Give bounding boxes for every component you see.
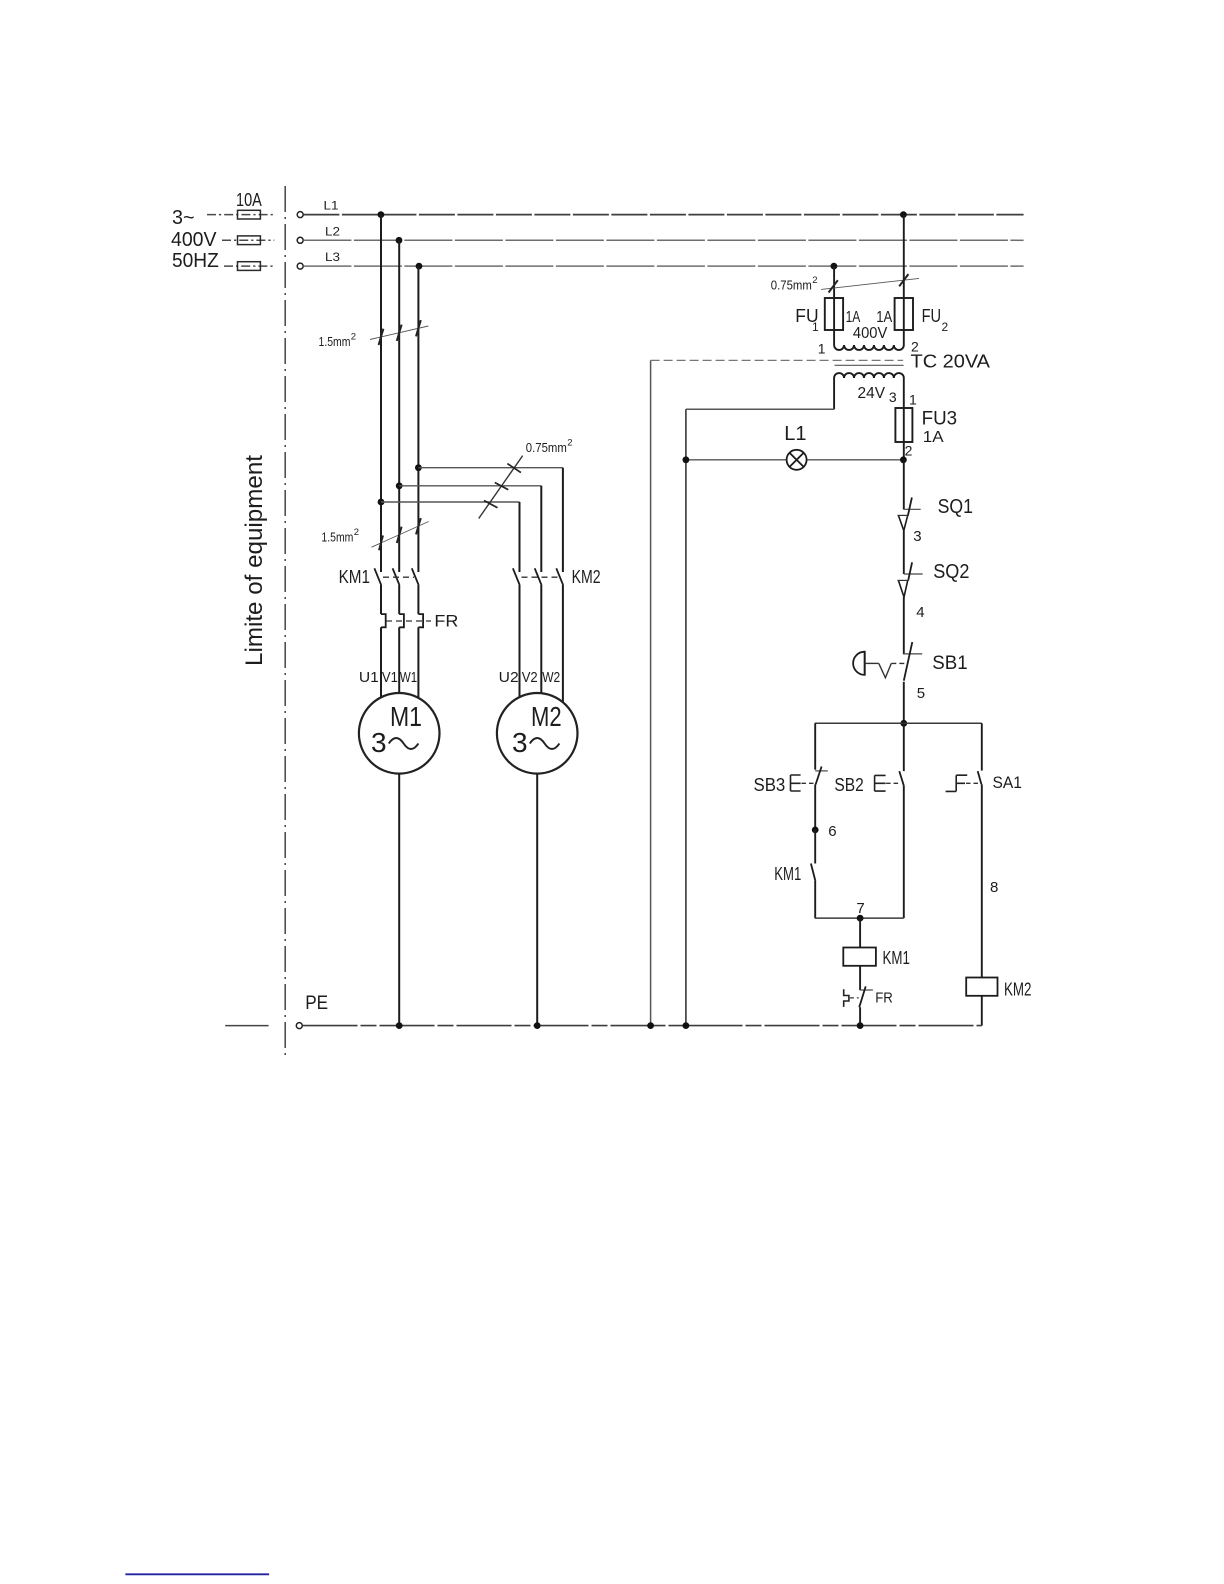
label 1A (FU1)	[846, 309, 861, 326]
svg-text:KM1: KM1	[339, 567, 370, 587]
wire return vertical (24V common)	[685, 409, 687, 1025]
node 7 junction	[856, 900, 864, 921]
node 4	[916, 604, 924, 621]
svg-text:M2: M2	[531, 701, 562, 732]
node on L1 (control feed)	[900, 211, 907, 218]
terminal circle L3	[297, 263, 303, 269]
motor M2	[497, 693, 578, 774]
svg-text:PE: PE	[305, 993, 328, 1014]
fuse FU1	[795, 298, 843, 334]
wire KM1 to FR (3 segments)	[381, 585, 418, 614]
svg-text:SB3: SB3	[754, 775, 786, 795]
svg-text:U2: U2	[499, 669, 519, 686]
wire branch C horizontal	[418, 467, 563, 469]
lamp L1	[686, 423, 903, 470]
svg-text:3: 3	[913, 528, 921, 545]
wire node5 rail	[815, 722, 982, 724]
svg-text:1A: 1A	[876, 309, 892, 326]
contact KM1 auxiliary (NO)	[774, 864, 815, 885]
label Limite of equipment (vertical)	[241, 455, 268, 666]
svg-text:L1: L1	[784, 423, 806, 445]
wire FU3 to node2	[903, 442, 905, 460]
node on L1 (phase drop)	[378, 211, 385, 218]
PE stub left	[225, 1025, 268, 1027]
thermal overload FR element	[381, 612, 458, 631]
svg-text:U1: U1	[359, 669, 379, 686]
wire screen earth vertical	[650, 360, 652, 1025]
wire KM2 to M2	[520, 585, 563, 702]
wire FR to PE rail	[859, 1007, 861, 1025]
svg-text:400V: 400V	[171, 229, 217, 251]
node PE M2	[534, 1022, 541, 1029]
wire KM1 aux to node7	[814, 881, 816, 918]
svg-text:3: 3	[889, 389, 897, 405]
svg-text:0.75mm: 0.75mm	[526, 440, 567, 455]
node branch A	[378, 499, 385, 506]
wire branch B horizontal	[399, 485, 541, 487]
svg-text:V1: V1	[382, 669, 398, 686]
svg-text:2: 2	[905, 443, 913, 459]
wire KM2 drop U2	[519, 502, 521, 572]
node on L2 (phase drop)	[396, 237, 403, 244]
wire KM2 drop W2	[562, 468, 564, 572]
motor M1	[359, 693, 440, 774]
svg-text:KM2: KM2	[572, 567, 601, 587]
wire secondary to FU3	[903, 378, 905, 408]
wire KM2 drop V2	[540, 486, 542, 572]
svg-text:24V: 24V	[858, 385, 886, 402]
svg-text:V2: V2	[522, 669, 538, 686]
svg-text:SB2: SB2	[834, 775, 863, 795]
push button SB3 (NO start)	[754, 767, 828, 796]
svg-text:2: 2	[942, 320, 949, 334]
svg-text:FU3: FU3	[922, 409, 958, 430]
svg-text:50HZ: 50HZ	[172, 250, 219, 272]
svg-text:2: 2	[812, 275, 817, 286]
node PE control	[857, 1022, 864, 1029]
node 5 junction	[900, 720, 907, 727]
node 5	[917, 685, 925, 702]
svg-text:KM1: KM1	[883, 948, 910, 968]
terminal circle L1	[297, 212, 303, 218]
wire SQ1 to SQ2	[903, 531, 905, 574]
wire PE rail	[303, 1025, 982, 1027]
wire node7 to KM1 coil	[859, 918, 861, 947]
fuse FU3	[895, 408, 957, 459]
node on L3 (control feed)	[831, 263, 838, 270]
node branch C (to KM2)	[415, 464, 422, 471]
node 8 label	[990, 879, 998, 896]
wire phase C vertical	[417, 266, 419, 572]
svg-text:8: 8	[990, 879, 998, 896]
wire KM2 coil to PE rail	[981, 996, 983, 1026]
svg-text:10A: 10A	[236, 190, 262, 210]
fuse F-L1	[238, 210, 261, 219]
wire L3	[303, 250, 1023, 266]
transformer screen (dashed core line)	[651, 359, 904, 361]
wire secondary left to return	[686, 378, 834, 409]
svg-text:W2: W2	[542, 669, 560, 686]
wire L1	[303, 199, 1023, 215]
svg-text:L1: L1	[324, 199, 339, 213]
svg-text:Limite of equipment: Limite of equipment	[241, 455, 268, 666]
svg-text:2: 2	[354, 527, 359, 538]
contactor KM1 main contacts	[339, 567, 419, 587]
fuse label 10A	[236, 190, 262, 210]
svg-text:SB1: SB1	[932, 653, 967, 674]
svg-text:1: 1	[812, 320, 819, 334]
transformer core line	[835, 364, 904, 366]
wire SA1 branch	[981, 723, 983, 770]
fuse F-L2	[238, 236, 261, 245]
transformer TC secondary	[834, 373, 917, 407]
limit switch SQ2	[897, 561, 969, 597]
wire L1 to FU2	[903, 215, 905, 298]
wire node6 to KM1 aux	[814, 830, 816, 864]
svg-text:M1: M1	[390, 701, 422, 732]
wire M2 to PE	[536, 774, 538, 1026]
transformer TC primary	[818, 330, 919, 357]
wire phase B vertical	[398, 240, 400, 572]
terminal circle L2	[297, 237, 303, 243]
terminal circle PE	[296, 993, 328, 1029]
svg-text:3~: 3~	[172, 207, 195, 229]
wire node2 to SQ1	[903, 460, 905, 510]
svg-text:0.75mm: 0.75mm	[771, 278, 812, 293]
wire SA1 to KM2 coil	[981, 784, 983, 977]
svg-text:5: 5	[917, 685, 925, 702]
node PE M1	[396, 1022, 403, 1029]
wire stub L1 supply	[207, 214, 274, 216]
svg-text:400V: 400V	[853, 325, 888, 342]
svg-text:1.5mm: 1.5mm	[319, 334, 351, 349]
svg-text:2: 2	[351, 332, 356, 343]
svg-text:FR: FR	[875, 990, 893, 1007]
wire size mark 0.75mm2 (control feed)	[771, 274, 919, 292]
boundary dash-dot line (limit of equipment)	[284, 186, 286, 1056]
node lamp left	[683, 456, 690, 463]
push button SB1 (mushroom NC)	[853, 642, 968, 681]
svg-text:3: 3	[371, 727, 387, 758]
fuse F-L3	[238, 262, 261, 271]
wire SQ2 to SB1	[903, 597, 905, 654]
svg-text:L3: L3	[325, 250, 340, 264]
contactor KM2 main contacts	[513, 567, 601, 587]
wire SB2 branch	[903, 723, 905, 771]
svg-text:1: 1	[818, 341, 826, 357]
wire stub L2 supply	[222, 239, 274, 241]
wire branch A horizontal	[381, 501, 520, 503]
wire node7 rail	[815, 917, 904, 919]
svg-text:6: 6	[828, 823, 836, 840]
wire size mark 1.5mm2 upper	[319, 320, 429, 349]
wire size mark 0.75mm2 (KM2 feed)	[479, 438, 573, 519]
wire SB2 to node7 rail	[903, 785, 905, 918]
svg-text:SQ1: SQ1	[938, 496, 973, 518]
coil KM1	[843, 948, 910, 969]
node 3	[913, 528, 921, 545]
wire FR to M1	[381, 627, 418, 697]
selector switch SA1	[946, 771, 1022, 792]
push button SB2 (NO)	[834, 771, 903, 795]
contact FR (NC thermal)	[844, 986, 893, 1007]
svg-text:1: 1	[909, 392, 917, 408]
node 2 (lamp right)	[900, 456, 907, 463]
supply label 3~ 400V 50HZ	[171, 207, 219, 272]
wire SB3 branch top	[814, 723, 816, 769]
motor terminal labels U1 V1 W1	[359, 669, 417, 686]
svg-text:TC 20VA: TC 20VA	[911, 352, 991, 372]
svg-text:SA1: SA1	[993, 773, 1022, 792]
label 400V	[853, 325, 888, 342]
wire L3 to FU1	[833, 266, 835, 298]
node branch B	[396, 482, 403, 489]
svg-text:KM1: KM1	[774, 864, 801, 884]
fuse FU2	[895, 298, 949, 334]
svg-text:KM2: KM2	[1004, 980, 1032, 1000]
decorative blue rule	[125, 1573, 269, 1575]
svg-text:L2: L2	[325, 225, 340, 239]
wire M1 to PE	[398, 774, 400, 1026]
svg-text:1A: 1A	[846, 309, 861, 326]
node 6 junction	[812, 823, 837, 840]
coil KM2	[966, 978, 1031, 1000]
wire L2	[303, 225, 1023, 241]
svg-text:2: 2	[567, 438, 572, 449]
wire phase A vertical	[380, 215, 382, 572]
wire SB3 to node6	[814, 785, 816, 830]
label TC 20VA	[911, 352, 991, 372]
wire KM1 coil to FR	[859, 966, 861, 990]
svg-text:1A: 1A	[923, 429, 944, 446]
svg-text:SQ2: SQ2	[933, 561, 969, 583]
limit switch SQ1	[897, 496, 973, 531]
svg-text:3: 3	[512, 727, 528, 758]
node PE return	[683, 1022, 690, 1029]
svg-text:W1: W1	[400, 669, 417, 686]
svg-text:4: 4	[916, 604, 924, 621]
svg-text:FR: FR	[434, 612, 458, 631]
label 1A (FU2)	[876, 309, 892, 326]
node on L3 (phase drop)	[416, 263, 423, 270]
wire SB1 to node5	[903, 682, 905, 724]
svg-text:7: 7	[856, 900, 864, 917]
svg-text:FU: FU	[922, 306, 942, 326]
svg-text:1.5mm: 1.5mm	[321, 530, 353, 545]
wire size mark 1.5mm2 lower	[321, 518, 428, 550]
wire stub L3 supply	[224, 265, 274, 267]
node PE screen	[647, 1022, 654, 1029]
motor terminal labels U2 V2 W2	[499, 669, 561, 686]
